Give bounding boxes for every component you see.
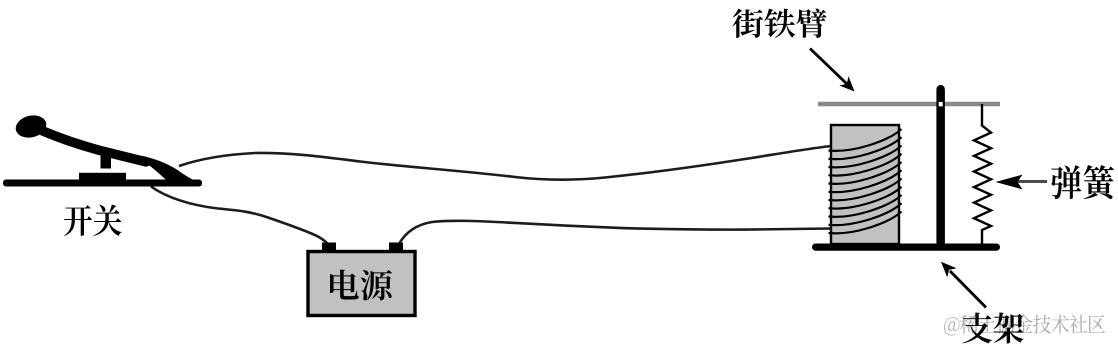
battery body [308, 252, 415, 316]
coil core body [831, 125, 899, 244]
coil winding turns [829, 129, 902, 151]
base support bar [812, 244, 1000, 251]
switch contact block [79, 173, 126, 181]
switch label 开关 [64, 204, 121, 236]
arrow to armature arm [810, 49, 847, 85]
arrow to spring [1016, 180, 1047, 183]
spring label 弹簧 [1051, 165, 1114, 199]
post notch [939, 102, 943, 106]
wire from switch base to battery left terminal [151, 187, 329, 246]
switch lever handle [13, 112, 196, 184]
wire from battery right terminal to coil bottom lead [399, 221, 832, 244]
battery left terminal [322, 243, 336, 254]
arrow to support [950, 271, 986, 308]
switch contact pin on lever [101, 152, 112, 169]
wire from switch lever to coil top lead [179, 146, 832, 180]
support post [936, 85, 945, 247]
support label 支架 [962, 312, 1023, 343]
battery label 电源 [330, 269, 392, 300]
battery right terminal [389, 243, 403, 254]
switch base bar [3, 180, 202, 187]
spring [974, 104, 991, 245]
armature label 街铁臂 [733, 8, 827, 38]
armature arm (gray bar) [818, 102, 1000, 107]
watermark [944, 314, 1105, 335]
